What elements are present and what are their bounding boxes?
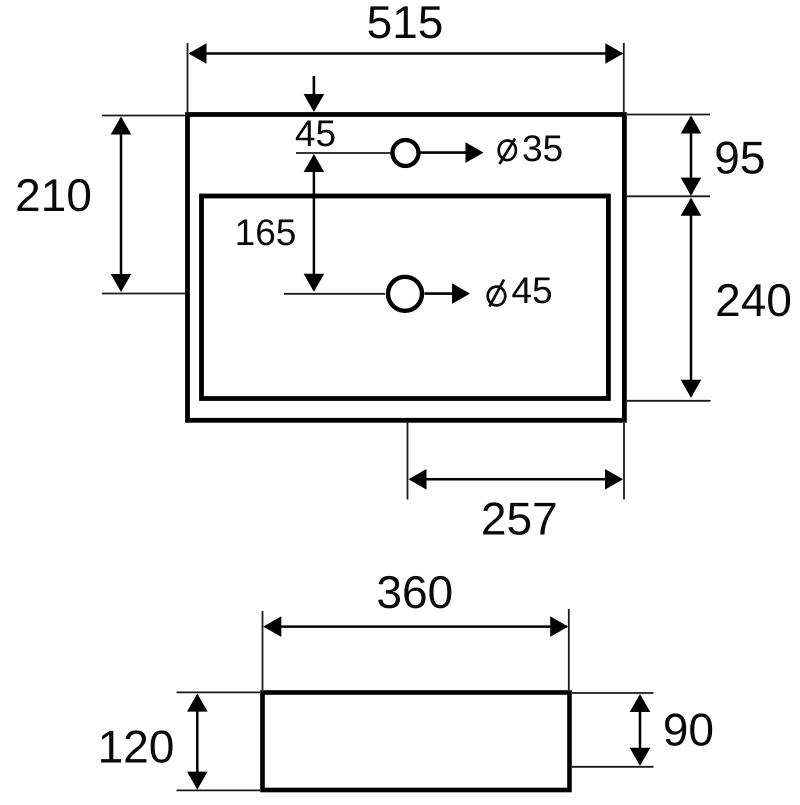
- dim 515 text: [369, 6, 442, 38]
- dim 210 top extension line: [102, 115, 186, 117]
- dim 360 right arrowhead: [550, 616, 568, 637]
- side view body rectangle: [263, 693, 570, 791]
- dim 120 top arrowhead: [187, 694, 208, 712]
- label 35: [523, 135, 561, 161]
- dim 95 line: [690, 117, 693, 195]
- drain hole circle o45: [388, 277, 422, 311]
- dim 120 top extension line: [177, 691, 261, 693]
- dim 360 line: [265, 625, 567, 628]
- dim 515 line: [190, 52, 622, 55]
- dim 257 right extension line: [623, 423, 625, 500]
- drain hole leader arrowhead: [452, 283, 470, 304]
- dim 240 text: [717, 284, 790, 317]
- dim 240 top arrowhead: [681, 198, 702, 216]
- dim 210 bottom extension line: [102, 293, 186, 295]
- tap hole centerline: [296, 152, 391, 154]
- dim 165 line: [313, 156, 316, 290]
- dim 90 text: [665, 713, 712, 746]
- diameter symbol of o35 label: [499, 139, 516, 164]
- dim 210 line: [120, 118, 123, 290]
- dim 240 bottom arrowhead: [681, 380, 702, 398]
- dim 95 bottom arrowhead: [681, 178, 702, 196]
- dim 257 left arrowhead: [409, 469, 427, 490]
- drain hole leader arrow line: [425, 292, 455, 295]
- dim 360 right extension line: [568, 609, 570, 690]
- dim 257 line: [410, 478, 622, 481]
- dim 45 upper arrow line: [313, 76, 316, 96]
- dim 120 bottom arrowhead: [187, 772, 208, 790]
- dim 90 top arrowhead: [630, 694, 651, 712]
- dim 210 top arrowhead: [111, 117, 132, 135]
- dim 95 top arrowhead: [681, 116, 702, 134]
- dim 90 bottom arrowhead: [630, 748, 651, 766]
- dim 90 top extension line: [572, 692, 654, 694]
- drain hole centerline: [284, 293, 385, 295]
- inner basin bowl outline (top view): [202, 196, 609, 399]
- dim 165 bottom arrowhead: [304, 274, 325, 292]
- dim 165 top arrowhead: [304, 154, 325, 172]
- dim 210 text: [17, 179, 90, 212]
- dim 165 text: [238, 219, 295, 245]
- dim 257 text: [483, 502, 555, 535]
- dim 240 line: [690, 199, 693, 397]
- dim 360 left extension line: [262, 611, 264, 690]
- dim 95 text: [716, 141, 763, 174]
- dim 90 bottom extension line: [572, 766, 654, 768]
- dim 120 line: [196, 695, 199, 788]
- dim 257 right arrowhead: [605, 469, 623, 490]
- tap hole circle o35: [393, 140, 419, 166]
- dim 45 down arrowhead: [304, 94, 325, 112]
- tap hole leader arrowhead: [466, 142, 484, 163]
- dim 90 line: [639, 696, 642, 765]
- dim 515 left arrowhead: [189, 43, 207, 64]
- dim 515 left extension line: [187, 43, 189, 112]
- dim 120 text: [101, 730, 173, 763]
- dim 95 top extension line: [627, 114, 710, 116]
- dim 45 text: [296, 121, 335, 147]
- dim 515 right extension line: [623, 43, 625, 112]
- label 45 of drain: [512, 278, 551, 304]
- dim 95-240 middle extension line: [627, 195, 710, 197]
- diameter symbol of o45 label: [488, 280, 506, 307]
- tap hole leader arrow line: [421, 151, 468, 154]
- dim 257 left extension line: [407, 421, 409, 500]
- dim 210 bottom arrowhead: [111, 274, 132, 292]
- outer basin outline (top view): [188, 115, 625, 421]
- dim 515 right arrowhead: [605, 43, 623, 64]
- dim 240 bottom extension line: [627, 400, 711, 402]
- dim 360 left arrowhead: [263, 616, 281, 637]
- dim 360 text: [378, 576, 451, 609]
- dim 120 bottom extension line: [177, 789, 261, 791]
